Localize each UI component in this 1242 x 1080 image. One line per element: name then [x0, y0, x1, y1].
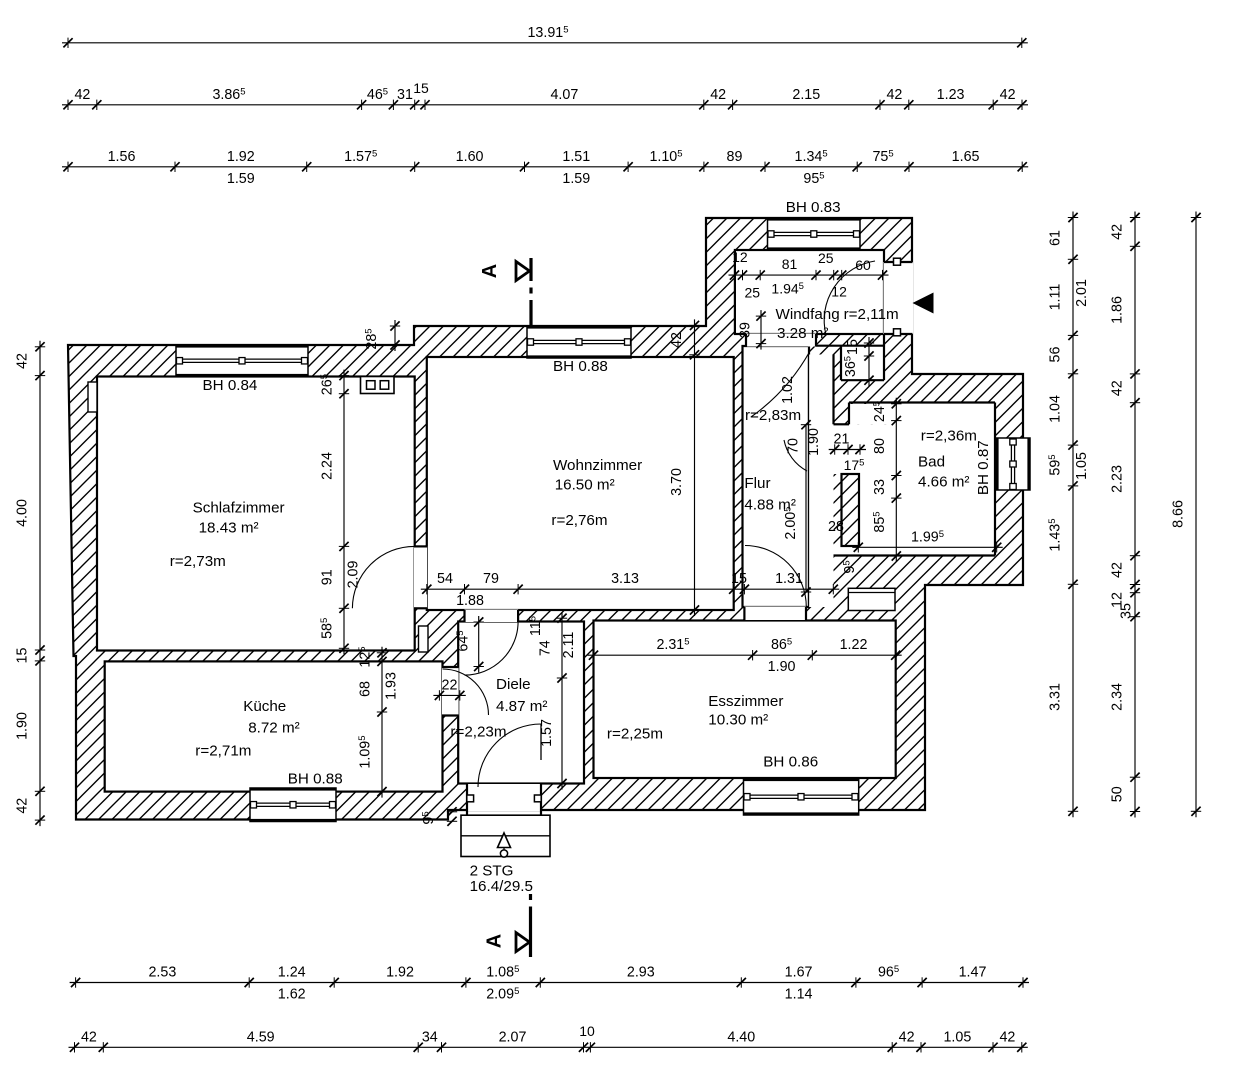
- svg-text:r=2,73m: r=2,73m: [170, 553, 226, 570]
- svg-text:15: 15: [731, 571, 747, 587]
- svg-text:42: 42: [999, 1029, 1015, 1045]
- svg-text:42: 42: [81, 1029, 97, 1045]
- svg-text:1.56: 1.56: [108, 149, 136, 165]
- svg-text:10: 10: [579, 1023, 595, 1039]
- svg-text:15: 15: [845, 339, 861, 355]
- svg-text:1.60: 1.60: [456, 149, 484, 165]
- svg-text:Schlafzimmer: Schlafzimmer: [193, 500, 285, 517]
- svg-text:2.01: 2.01: [1074, 279, 1090, 307]
- svg-text:3.28 m²: 3.28 m²: [777, 325, 829, 342]
- svg-text:r=2,11m: r=2,11m: [844, 306, 899, 323]
- svg-text:1.92: 1.92: [386, 965, 414, 981]
- svg-text:42: 42: [15, 353, 31, 369]
- svg-text:12: 12: [831, 283, 847, 299]
- svg-text:2.53: 2.53: [148, 965, 176, 981]
- svg-text:8.66: 8.66: [1171, 500, 1187, 528]
- svg-text:r=2,76m: r=2,76m: [551, 512, 607, 529]
- svg-text:42: 42: [899, 1029, 915, 1045]
- svg-text:BH 0.87: BH 0.87: [975, 440, 992, 495]
- svg-text:42: 42: [1110, 380, 1126, 396]
- svg-text:42: 42: [1110, 562, 1126, 578]
- svg-text:25: 25: [818, 250, 834, 266]
- svg-text:79: 79: [483, 571, 499, 587]
- svg-text:42: 42: [15, 798, 31, 814]
- svg-text:1.22: 1.22: [840, 637, 868, 653]
- svg-text:2.09: 2.09: [346, 561, 362, 589]
- svg-text:1.59: 1.59: [227, 171, 255, 187]
- svg-text:15: 15: [15, 648, 31, 664]
- svg-text:61: 61: [1048, 230, 1064, 246]
- svg-text:r=2,71m: r=2,71m: [195, 742, 251, 759]
- svg-text:1.51: 1.51: [562, 149, 590, 165]
- svg-text:39: 39: [738, 322, 754, 338]
- svg-text:r=2,36m: r=2,36m: [921, 428, 977, 445]
- svg-text:1.02: 1.02: [780, 376, 796, 404]
- svg-text:1.04: 1.04: [1048, 395, 1064, 423]
- svg-text:42: 42: [886, 87, 902, 103]
- svg-text:1.92: 1.92: [227, 149, 255, 165]
- svg-text:1.88: 1.88: [456, 593, 484, 609]
- svg-text:Wohnzimmer: Wohnzimmer: [553, 457, 642, 474]
- svg-text:Bad: Bad: [918, 453, 945, 470]
- svg-text:70: 70: [785, 438, 801, 454]
- svg-text:3.13: 3.13: [611, 571, 639, 587]
- svg-text:2.07: 2.07: [499, 1029, 527, 1045]
- svg-text:2.15: 2.15: [792, 87, 820, 103]
- svg-text:4.00: 4.00: [15, 499, 31, 527]
- svg-text:1.59: 1.59: [562, 171, 590, 187]
- svg-text:1.24: 1.24: [278, 965, 306, 981]
- svg-text:13.915: 13.915: [527, 24, 568, 41]
- svg-text:74: 74: [538, 640, 554, 656]
- svg-text:81: 81: [782, 256, 798, 272]
- svg-text:33: 33: [872, 479, 888, 495]
- svg-text:Diele: Diele: [496, 676, 531, 693]
- svg-text:68: 68: [358, 681, 374, 697]
- svg-text:2 STG: 2 STG: [470, 863, 514, 880]
- svg-text:15: 15: [413, 80, 429, 96]
- svg-text:A: A: [479, 264, 501, 278]
- svg-text:Küche: Küche: [243, 698, 286, 715]
- svg-text:BH 0.83: BH 0.83: [786, 199, 841, 216]
- svg-text:2.34: 2.34: [1110, 683, 1126, 711]
- svg-text:42: 42: [710, 87, 726, 103]
- svg-text:3.70: 3.70: [669, 468, 685, 496]
- svg-text:10.30 m²: 10.30 m²: [708, 711, 768, 728]
- svg-text:1.62: 1.62: [278, 987, 306, 1003]
- svg-text:4.66 m²: 4.66 m²: [918, 473, 970, 490]
- svg-text:12: 12: [732, 249, 748, 265]
- svg-text:2.11: 2.11: [561, 632, 577, 659]
- svg-text:1.86: 1.86: [1110, 296, 1126, 324]
- svg-text:1.57: 1.57: [539, 719, 555, 747]
- svg-text:1.93: 1.93: [384, 672, 400, 700]
- svg-text:4.07: 4.07: [550, 87, 578, 103]
- svg-text:16.4/29.5: 16.4/29.5: [470, 878, 533, 895]
- svg-text:42: 42: [74, 87, 90, 103]
- svg-text:1.47: 1.47: [959, 965, 987, 981]
- svg-text:1.65: 1.65: [952, 149, 980, 165]
- svg-text:A: A: [484, 934, 506, 948]
- svg-text:3.31: 3.31: [1048, 683, 1064, 711]
- svg-text:35: 35: [1119, 603, 1135, 619]
- svg-text:42: 42: [1000, 87, 1016, 103]
- svg-text:2.23: 2.23: [1110, 465, 1126, 493]
- svg-text:Flur: Flur: [744, 475, 770, 492]
- svg-text:50: 50: [1110, 786, 1126, 802]
- svg-text:25: 25: [745, 284, 761, 300]
- svg-text:22: 22: [442, 677, 458, 693]
- svg-text:r=2,23m: r=2,23m: [450, 723, 506, 740]
- svg-text:60: 60: [855, 257, 871, 273]
- svg-text:42: 42: [669, 332, 685, 348]
- svg-text:BH 0.88: BH 0.88: [553, 358, 608, 375]
- svg-text:1.05: 1.05: [943, 1029, 971, 1045]
- svg-text:1.05: 1.05: [1074, 452, 1090, 480]
- svg-text:Windfang: Windfang: [776, 306, 840, 323]
- svg-text:89: 89: [727, 149, 743, 165]
- svg-text:56: 56: [1048, 347, 1064, 363]
- svg-text:Esszimmer: Esszimmer: [708, 693, 783, 710]
- svg-text:80: 80: [872, 438, 888, 454]
- svg-text:8.72 m²: 8.72 m²: [248, 719, 300, 736]
- svg-text:1.23: 1.23: [937, 87, 965, 103]
- svg-text:BH 0.86: BH 0.86: [763, 754, 818, 771]
- svg-text:1.90: 1.90: [806, 428, 822, 456]
- svg-text:1.14: 1.14: [785, 987, 813, 1003]
- svg-text:1.67: 1.67: [785, 965, 813, 981]
- svg-text:1.90: 1.90: [768, 659, 796, 675]
- svg-text:r=2,25m: r=2,25m: [607, 725, 663, 742]
- svg-text:BH 0.84: BH 0.84: [203, 377, 258, 394]
- svg-text:r=2,83m: r=2,83m: [745, 407, 801, 424]
- svg-text:4.59: 4.59: [247, 1029, 275, 1045]
- svg-text:1.31: 1.31: [775, 571, 803, 587]
- svg-text:91: 91: [320, 569, 336, 585]
- svg-text:16.50 m²: 16.50 m²: [555, 477, 615, 494]
- svg-text:21: 21: [834, 432, 850, 448]
- svg-text:1.11: 1.11: [1048, 284, 1064, 311]
- svg-text:1.90: 1.90: [15, 712, 31, 740]
- svg-text:31: 31: [397, 87, 413, 103]
- svg-text:4.87 m²: 4.87 m²: [496, 698, 548, 715]
- svg-text:18.43 m²: 18.43 m²: [199, 520, 259, 537]
- svg-text:28: 28: [828, 519, 844, 535]
- svg-text:2.24: 2.24: [320, 452, 336, 480]
- svg-text:4.40: 4.40: [727, 1029, 755, 1045]
- svg-text:34: 34: [422, 1029, 438, 1045]
- svg-text:BH 0.88: BH 0.88: [288, 771, 343, 788]
- svg-text:2.93: 2.93: [627, 965, 655, 981]
- svg-text:42: 42: [1110, 224, 1126, 240]
- svg-text:54: 54: [437, 571, 453, 587]
